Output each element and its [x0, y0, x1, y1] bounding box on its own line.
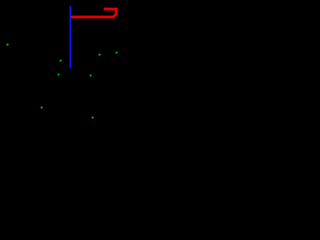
via V8: [90, 115, 94, 119]
wire: red trace bright core with 45-degree miter corner: [71, 9, 116, 17]
via V3: [56, 72, 60, 76]
via V7: [39, 105, 43, 109]
via V2: [58, 58, 62, 62]
background: [0, 0, 160, 120]
wire: blue vertical trace (bottom copper layer): [69, 6, 72, 67]
via V4: [88, 73, 92, 77]
via V1: [5, 42, 9, 46]
wire: red trace glow (top copper layer): [71, 9, 116, 17]
via V5: [97, 52, 101, 56]
via V6: [114, 50, 118, 54]
